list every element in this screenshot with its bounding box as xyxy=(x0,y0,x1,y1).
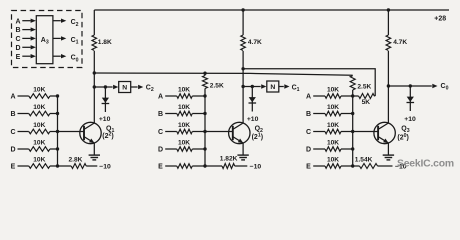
wire Q3 emitter to ground xyxy=(387,143,389,155)
wire Q2 emitter to ground xyxy=(242,143,244,155)
wire Q1 emitter to ground xyxy=(93,143,95,155)
input B row + resistor 10K (stage 1) xyxy=(10,104,59,118)
svg-text:1.54K: 1.54K xyxy=(355,157,373,164)
decoder block dashed enclosure xyxy=(12,11,83,68)
clamp diode CR2 xyxy=(249,85,257,112)
input A row + resistor 10K (stage 3) xyxy=(306,87,354,101)
svg-text:C2: C2 xyxy=(146,84,154,93)
node dot C0 line xyxy=(387,84,390,87)
label Q3 xyxy=(401,126,409,135)
label C2 xyxy=(146,84,154,93)
junction dot rail / R 4.7K #2 xyxy=(387,8,390,11)
wire rail down to 4.7K #2 xyxy=(387,10,389,35)
input A row + resistor 10K (stage 2) xyxy=(158,87,207,101)
label -10 (stage1) xyxy=(99,163,111,170)
decoder input B xyxy=(15,27,35,34)
wire N box to C2 arrow xyxy=(131,85,144,89)
svg-text:10K: 10K xyxy=(33,122,45,129)
input C row + resistor 10K (stage 1) xyxy=(10,122,59,136)
svg-text:1.82K: 1.82K xyxy=(220,155,238,162)
svg-text:E: E xyxy=(306,164,311,171)
resistor 2.5K (stage3) xyxy=(350,76,371,96)
svg-text:2.5K: 2.5K xyxy=(210,83,224,90)
label C1 xyxy=(292,84,300,93)
label +10 (stage3) xyxy=(404,116,416,123)
resistor 4.7K #1 xyxy=(241,35,262,51)
svg-text:+28: +28 xyxy=(434,15,446,22)
label -10 (stage3, under watermark) xyxy=(395,164,407,171)
summing bus wire (stage 1) xyxy=(57,96,59,166)
svg-text:+10: +10 xyxy=(99,116,111,123)
junction dot rail / R 4.7K #1 xyxy=(241,8,244,11)
svg-text:E: E xyxy=(158,164,163,171)
svg-text:10K: 10K xyxy=(178,87,190,94)
ground (Q1) xyxy=(89,155,100,160)
logic box N (stage2) xyxy=(267,81,279,92)
svg-text:2.8K: 2.8K xyxy=(69,156,83,163)
wire 4.7K to Q2 collector xyxy=(242,51,244,123)
input D row + resistor 10K (stage 2) xyxy=(158,140,207,154)
input B row + resistor 10K (stage 3) xyxy=(306,104,354,118)
wire C1 output line xyxy=(243,86,261,88)
label (2^2) xyxy=(102,131,113,140)
label Q2 xyxy=(255,125,263,134)
svg-text:−10: −10 xyxy=(99,163,111,170)
wire 4.7K to Q3 collector xyxy=(387,51,389,123)
logic box N (stage1) xyxy=(119,82,131,93)
svg-text:SeekIC.com: SeekIC.com xyxy=(397,159,454,170)
svg-text:10K: 10K xyxy=(33,157,45,164)
svg-text:A3: A3 xyxy=(41,37,49,46)
svg-text:10K: 10K xyxy=(178,122,190,129)
node dot L1 / stage2 2.5K xyxy=(203,72,206,75)
svg-text:N: N xyxy=(270,84,275,91)
svg-text:C0: C0 xyxy=(441,83,449,92)
svg-text:D: D xyxy=(10,147,15,154)
wire summing node to Q2 base xyxy=(205,131,233,133)
svg-text:C: C xyxy=(306,129,311,136)
svg-text:+10: +10 xyxy=(404,116,416,123)
svg-text:C1: C1 xyxy=(292,84,300,93)
svg-text:D: D xyxy=(306,147,311,154)
svg-text:−10: −10 xyxy=(250,164,262,171)
label +28 xyxy=(434,15,446,22)
svg-text:C2: C2 xyxy=(71,19,79,28)
label +10 (stage1) xyxy=(99,116,111,123)
svg-text:10K: 10K xyxy=(33,104,45,111)
resistor 1.8K xyxy=(92,35,112,51)
decoder IC A3 xyxy=(36,16,53,64)
input B row + resistor 10K (stage 2) xyxy=(158,104,207,118)
svg-text:4.7K: 4.7K xyxy=(393,39,407,46)
input C row + resistor 10K (stage 3) xyxy=(306,122,354,136)
input C row + resistor 10K (stage 2) xyxy=(158,122,207,136)
watermark SeekIC.com xyxy=(397,159,454,170)
decoder input C xyxy=(15,36,35,43)
wire L1 (to 2.5K dividers) xyxy=(94,73,352,75)
svg-text:A: A xyxy=(15,18,20,25)
decoder output C0 xyxy=(53,54,79,63)
summing bus wire (stage 3) xyxy=(352,96,354,166)
svg-text:E: E xyxy=(16,54,21,61)
wire 1.8K to Q1 collector xyxy=(93,51,95,123)
node dot C1 line xyxy=(241,85,244,88)
svg-text:2.5K: 2.5K xyxy=(357,83,371,90)
svg-text:B: B xyxy=(10,111,15,118)
decoder input A xyxy=(15,18,35,25)
svg-text:N: N xyxy=(122,84,127,91)
decoder input E xyxy=(16,54,36,61)
input E row + resistor 10K (stage 3) xyxy=(306,157,354,171)
transistor Q3 xyxy=(374,122,395,143)
ground (Q2) xyxy=(237,155,248,160)
node dot L2 / Q2 collector xyxy=(241,67,244,70)
svg-text:A: A xyxy=(306,94,311,101)
+28V supply rail xyxy=(94,9,449,11)
svg-text:C: C xyxy=(158,129,163,136)
svg-text:10K: 10K xyxy=(327,140,339,147)
label Q1 xyxy=(106,125,114,134)
clamp diode CR3 xyxy=(407,84,415,111)
wire L2 (Q2 collector to 5K) xyxy=(243,69,375,96)
input E row + resistor 10K (stage 1) xyxy=(11,157,60,171)
ground (Q3) xyxy=(383,155,394,160)
svg-text:E: E xyxy=(11,164,16,171)
wire summing node to Q3 base xyxy=(353,131,378,133)
svg-text:10K: 10K xyxy=(178,140,190,147)
label +10 (stage2) xyxy=(247,116,259,123)
resistor 2.8K to -10 xyxy=(58,156,98,168)
wire rail down to 4.7K #1 xyxy=(242,10,244,35)
input D row + resistor 10K (stage 3) xyxy=(306,140,354,154)
svg-text:C: C xyxy=(10,129,15,136)
svg-text:10K: 10K xyxy=(327,87,339,94)
decoder output C2 xyxy=(53,19,79,28)
svg-text:A: A xyxy=(10,94,15,101)
svg-text:C: C xyxy=(15,36,20,43)
decoder input D xyxy=(15,45,35,52)
svg-text:B: B xyxy=(158,111,163,118)
wire summing node to Q1 base xyxy=(58,131,85,133)
svg-text:A: A xyxy=(158,94,163,101)
svg-text:C0: C0 xyxy=(71,55,79,64)
input E row + resistor 10K (stage 2) xyxy=(158,164,207,171)
wire C0 output line xyxy=(388,84,437,88)
resistor 1.82K to -10 xyxy=(205,155,247,168)
label (2^0) xyxy=(397,133,408,142)
svg-text:C1: C1 xyxy=(71,37,79,46)
summing bus wire (stage 2) xyxy=(204,96,206,166)
node dot L1 tap xyxy=(93,71,96,74)
decoder output C1 xyxy=(53,36,79,45)
svg-text:5K: 5K xyxy=(362,99,371,106)
resistor 2.5K (stage2) xyxy=(203,73,224,96)
label C0 xyxy=(441,83,449,92)
node dot C2 line xyxy=(93,85,96,88)
input D row + resistor 10K (stage 1) xyxy=(10,140,59,154)
svg-text:(20): (20) xyxy=(397,133,408,142)
svg-text:10K: 10K xyxy=(327,122,339,129)
svg-text:10K: 10K xyxy=(33,140,45,147)
svg-text:10K: 10K xyxy=(327,104,339,111)
input A row + resistor 10K (stage 1) xyxy=(10,87,59,101)
svg-text:D: D xyxy=(158,147,163,154)
svg-text:B: B xyxy=(15,27,20,34)
svg-text:(21): (21) xyxy=(252,133,263,142)
svg-text:B: B xyxy=(306,111,311,118)
svg-text:10K: 10K xyxy=(33,87,45,94)
transistor Q2 xyxy=(229,122,250,143)
svg-text:(22): (22) xyxy=(102,131,113,140)
transistor Q1 xyxy=(80,122,101,143)
resistor 4.7K #2 xyxy=(386,35,407,51)
label -10 (stage2) xyxy=(250,164,262,171)
label (2^1) xyxy=(252,133,263,142)
svg-text:1.8K: 1.8K xyxy=(98,39,112,46)
resistor 1.54K xyxy=(353,157,393,169)
svg-text:D: D xyxy=(15,45,20,52)
svg-text:10K: 10K xyxy=(327,157,339,164)
svg-text:4.7K: 4.7K xyxy=(248,39,262,46)
resistor 5K (stage3) xyxy=(353,94,376,106)
wire rail corner down to 1.8K xyxy=(93,10,95,35)
wire N box to C1 arrow xyxy=(279,84,290,88)
arrow into N box (stage2) xyxy=(261,84,266,88)
svg-text:10K: 10K xyxy=(178,104,190,111)
svg-text:+10: +10 xyxy=(247,116,259,123)
wire C2 output line xyxy=(94,86,112,88)
arrow into N box (stage1) xyxy=(113,85,118,89)
clamp diode CR1 xyxy=(102,85,110,112)
